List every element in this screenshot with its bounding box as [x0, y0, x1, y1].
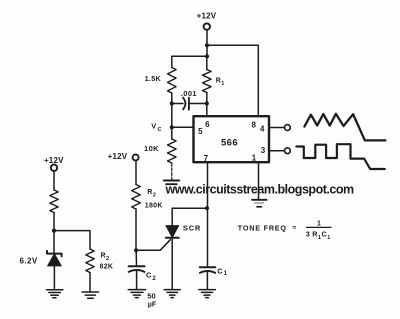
svg-text:180K: 180K [145, 203, 163, 210]
svg-text:2: 2 [152, 276, 156, 282]
svg-text:+12V: +12V [108, 152, 128, 161]
svg-text:R: R [216, 78, 221, 85]
wire C1 bottom lead [206, 271, 208, 289]
node pin 3 terminal [285, 148, 291, 154]
wire R1 to pin 6 [206, 93, 208, 117]
wire resistor to zener [53, 213, 55, 254]
svg-text:3: 3 [261, 146, 266, 155]
capacitor C2 curved plate [129, 270, 145, 272]
ground 82K [82, 292, 98, 298]
wire SCR cathode down [171, 238, 173, 289]
junction cap left [170, 101, 174, 105]
resistor R1 [203, 70, 212, 93]
capacitor C2 top plate [129, 265, 145, 267]
svg-text:C: C [146, 271, 152, 280]
wire to 1.5K branch [172, 56, 207, 67]
wire VC to 10K [171, 127, 173, 139]
svg-text:7: 7 [204, 154, 209, 163]
junction cap right [205, 101, 209, 105]
svg-text:10K: 10K [144, 144, 159, 153]
svg-text:2: 2 [106, 256, 109, 262]
svg-text:3: 3 [306, 230, 310, 239]
wire cap left lead [172, 103, 183, 105]
wire C2 bottom lead [136, 270, 138, 289]
wire C2 top lead [135, 250, 137, 265]
ground zener [46, 290, 63, 298]
wire 10K to ground [171, 163, 173, 180]
op-amp U1 566 IC box [194, 116, 270, 162]
wire R2 to gate node [135, 209, 137, 250]
svg-text:1.5K: 1.5K [145, 74, 162, 83]
junction anode / C1 node [205, 206, 209, 210]
wire pin 3 output [269, 150, 284, 152]
svg-text:+12V: +12V [197, 12, 217, 21]
svg-text:C: C [322, 230, 327, 239]
svg-text:4: 4 [260, 125, 265, 134]
junction left node [52, 229, 56, 233]
wire 82K to ground [89, 273, 91, 292]
svg-text:1: 1 [252, 153, 257, 162]
ground pin 1 small line [257, 206, 262, 208]
node +12V middle terminal [133, 155, 139, 161]
ground SCR [164, 290, 180, 298]
ground C2 [128, 290, 145, 298]
wire pin 4 output [269, 127, 284, 129]
wire pin 7 down [207, 162, 209, 208]
wire R1 top lead [206, 56, 208, 69]
capacitor C1 top plate [200, 266, 216, 268]
svg-text:www.circuitsstream.blogspot.co: www.circuitsstream.blogspot.com [165, 183, 355, 197]
capacitor .001 straight plate [188, 98, 190, 110]
wire 1.5K to VC [171, 93, 173, 127]
wire pin 1 down [258, 162, 260, 199]
wire middle supply to R2 [135, 161, 137, 185]
svg-text:5: 5 [198, 127, 203, 136]
svg-text:V: V [151, 122, 156, 131]
junction gate node [134, 248, 138, 252]
svg-text:1: 1 [317, 220, 321, 227]
svg-text:C: C [217, 266, 223, 275]
svg-text:6: 6 [205, 120, 210, 129]
svg-text:.001: .001 [181, 89, 197, 98]
wire top supply down [206, 30, 208, 57]
resistor R2 82K [86, 249, 94, 273]
svg-text:TONE FREQ: TONE FREQ [238, 223, 287, 232]
svg-text:50: 50 [147, 292, 155, 301]
svg-text:6.2V: 6.2V [20, 256, 38, 265]
capacitor C1 curved plate [200, 271, 216, 273]
wire left supply down [53, 171, 55, 190]
wire SCR gate [136, 240, 170, 251]
wire zener to ground [53, 266, 55, 290]
svg-text:R: R [101, 253, 106, 260]
waveform square output [296, 144, 384, 169]
node +12V left terminal [51, 165, 57, 171]
resistor left series [50, 190, 58, 213]
svg-text:1: 1 [327, 235, 330, 241]
wire anode lead [171, 208, 173, 226]
svg-text:µF: µF [148, 302, 157, 309]
junction VC node [170, 125, 174, 129]
svg-text:1: 1 [318, 235, 321, 241]
wire C1 top lead [207, 208, 209, 267]
wire SCR anode top [172, 207, 207, 209]
waveform triangle output [304, 114, 385, 141]
transistor SCR triangle [166, 226, 179, 238]
node +12V top supply terminal [204, 23, 210, 29]
svg-text:1: 1 [221, 81, 224, 87]
wire VC to pin 5 [172, 126, 194, 128]
wire to 82K branch [54, 231, 90, 249]
capacitor .001 curved plate [183, 98, 185, 110]
svg-text:8: 8 [251, 120, 256, 129]
svg-text:SCR: SCR [183, 224, 201, 233]
wire cap right lead [189, 103, 207, 105]
resistor 1.5K [168, 68, 177, 94]
resistor R2 180K [132, 185, 141, 210]
wire to pin 8 [207, 45, 258, 116]
diode zener triangle [48, 254, 62, 266]
junction top left branch [205, 54, 209, 58]
resistor 10K [168, 139, 177, 163]
transistor SCR cathode bar [166, 237, 179, 239]
svg-text:566: 566 [221, 137, 238, 148]
ground C1 [199, 290, 216, 298]
svg-text:R: R [147, 189, 152, 196]
ground pin 1 mid line [255, 202, 264, 204]
junction top right branch [205, 43, 209, 47]
diode zener 6.2V bar [47, 251, 62, 257]
node pin 4 terminal [285, 125, 291, 131]
svg-text:2: 2 [153, 193, 156, 199]
ground pin 1 [252, 199, 267, 201]
svg-text:82K: 82K [100, 264, 114, 271]
svg-text:≈: ≈ [293, 225, 297, 232]
svg-text:C: C [158, 127, 162, 133]
svg-text:+12V: +12V [44, 156, 64, 165]
ground 10K [164, 181, 180, 185]
